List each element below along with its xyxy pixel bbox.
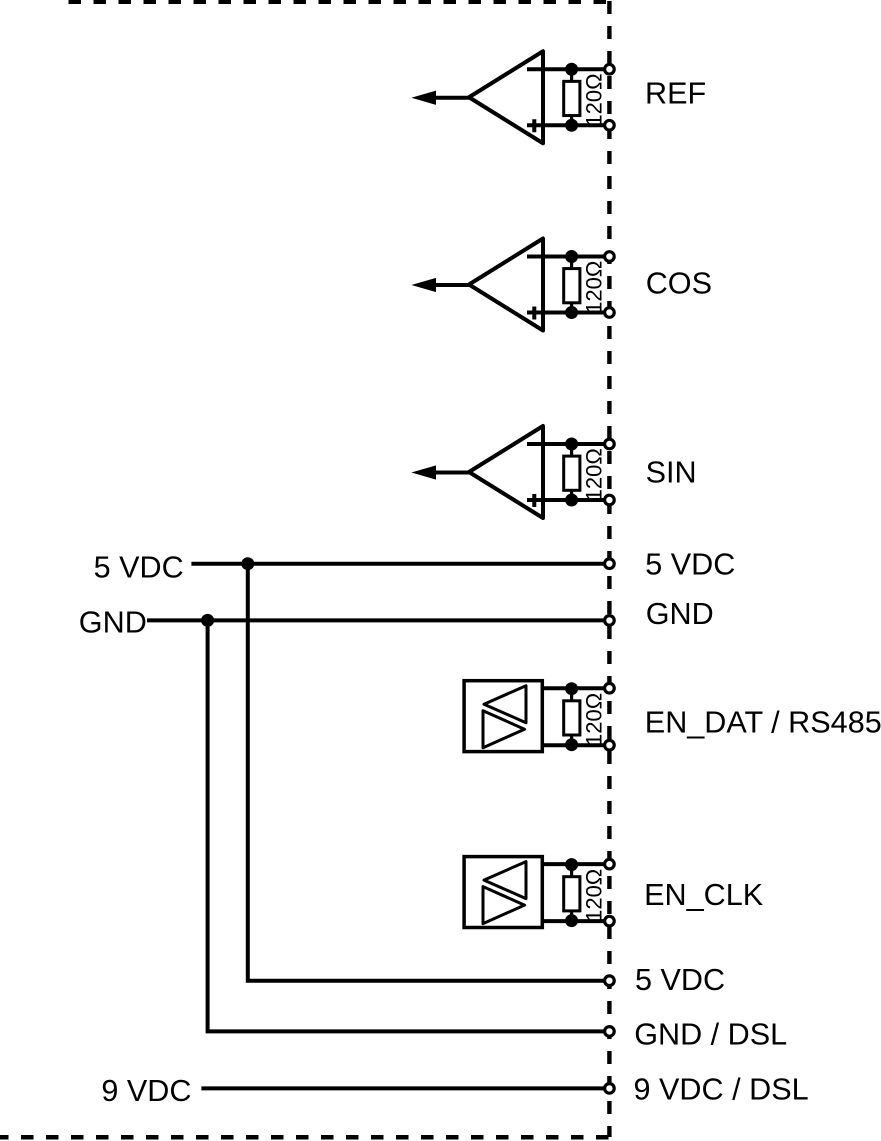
terminal SIN lower	[605, 495, 615, 505]
terminal GND	[605, 616, 615, 626]
terminal REF upper	[605, 64, 615, 74]
termination resistor 120Ω (EN_DAT)	[564, 682, 607, 751]
terminal 9 VDC / DSL	[605, 1084, 615, 1094]
terminal SIN upper	[605, 439, 615, 449]
termination resistor 120Ω (EN_CLK)	[564, 858, 607, 927]
terminal COS lower	[605, 308, 615, 318]
terminal EN_CLK upper	[605, 859, 615, 869]
terminal EN_DAT upper	[605, 683, 615, 693]
GND branch wire down to DSL connector	[208, 620, 610, 1031]
5 VDC branch wire down to DSL connector	[248, 564, 610, 981]
svg-text:EN_CLK: EN_CLK	[644, 878, 764, 912]
svg-text:9 VDC / DSL: 9 VDC / DSL	[634, 1073, 809, 1107]
svg-text:GND: GND	[646, 597, 714, 631]
svg-text:COS: COS	[646, 267, 712, 301]
terminal GND / DSL	[605, 1027, 615, 1037]
differential receiver SIN	[413, 426, 609, 518]
GND junction dot	[201, 614, 214, 627]
differential receiver REF	[413, 51, 609, 143]
svg-text:EN_DAT / RS485: EN_DAT / RS485	[645, 706, 881, 740]
termination resistor 120Ω (COS)	[564, 250, 607, 319]
svg-text:SIN: SIN	[646, 455, 697, 489]
svg-text:5 VDC: 5 VDC	[94, 550, 184, 584]
terminal COS upper	[605, 252, 615, 262]
svg-text:REF: REF	[645, 76, 706, 110]
terminal REF lower	[605, 120, 615, 130]
svg-text:9 VDC: 9 VDC	[101, 1074, 191, 1108]
cabinet boundary top dashed line	[69, 0, 610, 4]
cabinet boundary right vertical dashed line	[607, 0, 611, 1137]
9 VDC supply wire	[201, 1086, 609, 1090]
svg-text:GND / DSL: GND / DSL	[634, 1018, 787, 1052]
cabinet boundary bottom dashed line	[0, 1135, 612, 1140]
svg-text:5 VDC: 5 VDC	[635, 963, 725, 997]
5 VDC supply wire	[191, 562, 609, 566]
terminal 5 VDC DSL	[605, 976, 615, 986]
terminal 5 VDC	[605, 559, 615, 569]
svg-text:5 VDC: 5 VDC	[645, 548, 735, 582]
termination resistor 120Ω (SIN)	[564, 438, 607, 507]
differential receiver COS	[413, 239, 609, 331]
termination resistor 120Ω (REF)	[564, 63, 607, 132]
RS485 transceiver EN_CLK	[464, 857, 609, 928]
GND wire	[147, 618, 609, 622]
5 VDC junction dot	[241, 557, 254, 570]
RS485 transceiver EN_DAT	[464, 681, 609, 752]
terminal EN_CLK lower	[605, 916, 615, 926]
svg-text:GND: GND	[79, 605, 147, 639]
terminal EN_DAT lower	[605, 740, 615, 750]
